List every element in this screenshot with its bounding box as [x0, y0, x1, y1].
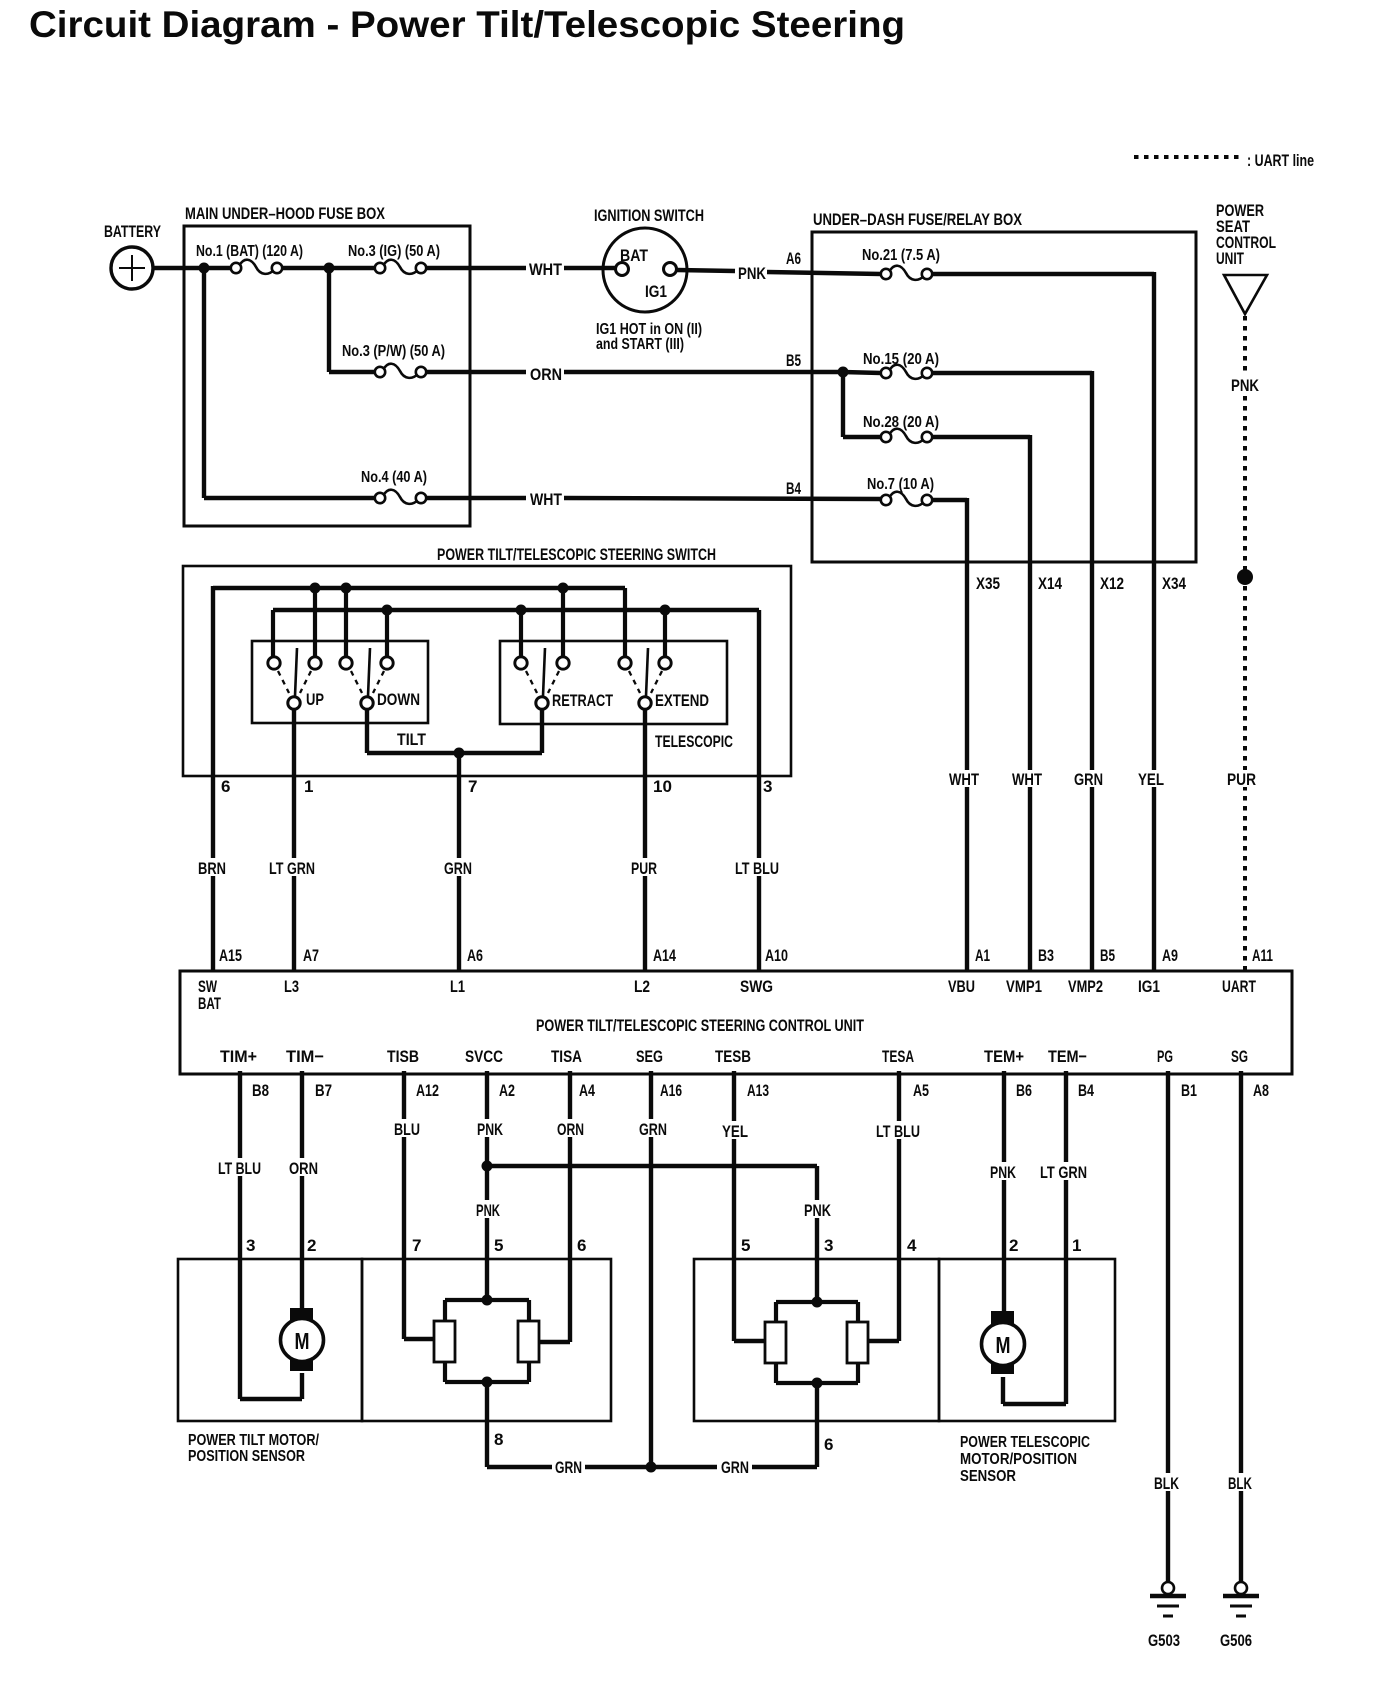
svg-text:No.15 (20 A): No.15 (20 A) [863, 351, 939, 368]
svg-text:EXTEND: EXTEND [655, 691, 709, 710]
wire TIM+ LT BLU to tilt motor [215, 1071, 302, 1399]
node junction on UART line [1237, 569, 1253, 585]
svg-text:VMP1: VMP1 [1006, 977, 1042, 996]
svg-text:A6: A6 [467, 946, 483, 965]
wire TISB BLU to tilt sensor [391, 1071, 435, 1339]
fuse No.7 (10 A) [867, 476, 934, 506]
fuse No.28 (20 A) [863, 414, 939, 443]
svg-text:UNDER–DASH FUSE/RELAY BOX: UNDER–DASH FUSE/RELAY BOX [813, 210, 1023, 229]
svg-text:UNIT: UNIT [1216, 249, 1244, 268]
svg-text:1: 1 [304, 777, 313, 796]
wire ORN to under-dash box [426, 365, 843, 384]
legend: UART line sample [1134, 151, 1314, 170]
potentiometer tilt position sensor [434, 1300, 539, 1382]
svg-text:TEM−: TEM− [1048, 1047, 1087, 1066]
svg-text:X35: X35 [976, 574, 1000, 593]
svg-text:POWER TILT/TELESCOPIC STEERING: POWER TILT/TELESCOPIC STEERING SWITCH [437, 545, 716, 564]
power tilt/telescopic steering switch box [183, 545, 791, 776]
svg-text:2: 2 [307, 1236, 316, 1255]
svg-text:L3: L3 [284, 977, 299, 996]
svg-text:TIM−: TIM− [286, 1047, 324, 1066]
svg-text:10: 10 [653, 777, 672, 796]
fuse No.21 (7.5 A) [862, 247, 940, 280]
fuse No.3 (IG) (50 A) [348, 243, 440, 274]
svg-text:UART: UART [1222, 977, 1256, 996]
svg-text:B6: B6 [1016, 1081, 1032, 1100]
svg-text:G503: G503 [1148, 1631, 1180, 1650]
wire common junction to L1 [457, 753, 461, 971]
svg-text:No.1 (BAT) (120 A): No.1 (BAT) (120 A) [196, 243, 303, 260]
svg-text:TILT: TILT [397, 730, 427, 749]
svg-text:LT BLU: LT BLU [735, 859, 779, 878]
svg-text:B8: B8 [252, 1081, 269, 1100]
svg-text:PNK: PNK [804, 1201, 832, 1220]
svg-text:MOTOR/POSITION: MOTOR/POSITION [960, 1451, 1077, 1468]
label power telescopic motor/position sensor [960, 1434, 1090, 1485]
svg-text:PNK: PNK [738, 264, 767, 283]
svg-text:8: 8 [494, 1430, 503, 1449]
node junction IG branch [324, 263, 335, 274]
node junction bus1 b [341, 583, 352, 594]
svg-text:No.3 (IG) (50 A): No.3 (IG) (50 A) [348, 243, 440, 260]
svg-text:6: 6 [221, 777, 230, 796]
pin IG1 contact [664, 263, 677, 276]
svg-text:RETRACT: RETRACT [552, 691, 613, 710]
wire TIM- ORN to tilt motor [286, 1071, 321, 1310]
wire telescopic sensor pin 6 GRN [817, 1383, 833, 1467]
node junction telescopic sensor bottom [812, 1378, 823, 1389]
main under-hood fuse box [184, 204, 470, 526]
switch DOWN [340, 648, 420, 709]
switch RETRACT [515, 648, 614, 710]
svg-text:GRN: GRN [1074, 770, 1103, 789]
svg-text:GRN: GRN [444, 859, 472, 878]
wire PNK branch to telescopic sensor [487, 1166, 834, 1302]
svg-text:BRN: BRN [198, 859, 226, 878]
wire TEM+ PNK to telescopic motor [987, 1071, 1019, 1313]
tilt switch contact box [252, 641, 428, 723]
battery B1 [104, 222, 161, 289]
svg-text:6: 6 [577, 1236, 586, 1255]
wire TEM- LT GRN to telescopic motor [1003, 1071, 1090, 1404]
svg-text:YEL: YEL [1138, 770, 1164, 789]
svg-text:VBU: VBU [948, 977, 975, 996]
svg-text:and START (III): and START (III) [596, 336, 684, 353]
svg-text:GRN: GRN [721, 1458, 749, 1477]
svg-text:A13: A13 [747, 1081, 769, 1100]
wire color label WHT on X35 [946, 770, 982, 789]
telescopic switch contact box [500, 641, 727, 724]
svg-text:1: 1 [1072, 1236, 1081, 1255]
node junction on battery feed [199, 263, 210, 274]
svg-text:X12: X12 [1100, 574, 1124, 593]
svg-text:B4: B4 [786, 479, 801, 498]
wire TESB YEL to telescopic sensor [719, 1071, 766, 1341]
potentiometer telescopic position sensor [765, 1302, 868, 1383]
svg-text:6: 6 [824, 1435, 833, 1454]
node junction tilt sensor bottom [482, 1377, 493, 1388]
svg-text:PNK: PNK [1231, 376, 1260, 395]
wire GRN bottom bus [487, 1458, 817, 1477]
power telescopic position sensor box [694, 1259, 939, 1421]
svg-text:POWER TILT MOTOR/: POWER TILT MOTOR/ [188, 1432, 320, 1449]
svg-text:TISB: TISB [387, 1047, 419, 1066]
wire RETRACT common to junction [540, 710, 544, 753]
motor M2 power telescopic [982, 1311, 1025, 1404]
power tilt motor box [178, 1259, 362, 1421]
svg-text:G506: G506 [1220, 1631, 1252, 1650]
svg-text:M: M [295, 1328, 310, 1354]
svg-text:TIM+: TIM+ [220, 1047, 257, 1066]
wire branch to fuse No.28 [843, 372, 881, 437]
svg-text:5: 5 [741, 1236, 750, 1255]
svg-text:B5: B5 [786, 351, 801, 370]
svg-text:A9: A9 [1162, 946, 1178, 965]
svg-text:POSITION SENSOR: POSITION SENSOR [188, 1448, 305, 1465]
svg-text:B3: B3 [1038, 946, 1054, 965]
svg-text:B5: B5 [1100, 946, 1115, 965]
svg-text:X34: X34 [1162, 574, 1186, 593]
wire WHT to ignition switch [426, 260, 616, 279]
fuse No.3 (P/W) (50 A) [342, 343, 445, 378]
svg-text:3: 3 [246, 1236, 255, 1255]
svg-text:No.7 (10 A): No.7 (10 A) [867, 476, 934, 493]
power tilt/telescopic steering control unit box [180, 971, 1292, 1074]
node junction tilt/telescopic common [454, 748, 465, 759]
svg-text:WHT: WHT [1012, 770, 1042, 789]
svg-text:BAT: BAT [198, 994, 221, 1013]
svg-text:A7: A7 [303, 946, 319, 965]
svg-text:GRN: GRN [555, 1458, 582, 1477]
node junction bus2 b [516, 605, 527, 616]
svg-text:LT GRN: LT GRN [269, 859, 315, 878]
svg-text:SG: SG [1231, 1047, 1248, 1066]
svg-text:7: 7 [468, 777, 477, 796]
svg-text:TESA: TESA [882, 1047, 914, 1066]
wire TISA ORN to tilt sensor [540, 1071, 587, 1342]
svg-text:X14: X14 [1038, 574, 1062, 593]
wire fuse No.15 to X12 vertical [932, 371, 1092, 971]
svg-text:LT GRN: LT GRN [1040, 1163, 1087, 1182]
power tilt position sensor box [362, 1259, 611, 1421]
wire branch to fuse No.4 [204, 268, 376, 498]
svg-text:No.21 (7.5 A): No.21 (7.5 A) [862, 247, 940, 264]
node junction telescopic sensor top [812, 1297, 823, 1308]
wire color label LT BLU [732, 858, 782, 878]
pin SW BAT label [198, 977, 221, 1013]
svg-text:LT BLU: LT BLU [876, 1122, 920, 1141]
svg-text:PUR: PUR [1227, 770, 1256, 789]
svg-text:PUR: PUR [631, 859, 657, 878]
svg-text:A5: A5 [913, 1081, 929, 1100]
svg-text:5: 5 [494, 1236, 503, 1255]
switch EXTEND [619, 648, 709, 710]
wire EXTEND common to L2 [643, 710, 647, 971]
wire color label GRN on X12 [1071, 770, 1105, 789]
svg-text:LT BLU: LT BLU [218, 1159, 261, 1178]
wire color label BRN [195, 858, 231, 878]
svg-text:M: M [996, 1332, 1011, 1358]
svg-text:PNK: PNK [477, 1120, 504, 1139]
fuse No.4 (40 A) [361, 469, 427, 504]
label power tilt motor/position sensor [188, 1432, 320, 1465]
svg-text:SEG: SEG [636, 1047, 663, 1066]
svg-text:IG1: IG1 [1138, 977, 1160, 996]
svg-text:Circuit Diagram - Power Tilt/T: Circuit Diagram - Power Tilt/Telescopic … [29, 4, 905, 45]
power seat control unit [1216, 201, 1276, 314]
svg-text:B4: B4 [1078, 1081, 1094, 1100]
svg-text:: UART line: : UART line [1247, 151, 1314, 170]
wire battery to fuse No.1 [153, 266, 232, 270]
wire UP common to L3 [292, 710, 296, 971]
svg-text:TESB: TESB [715, 1047, 751, 1066]
svg-text:L2: L2 [634, 977, 650, 996]
svg-text:A16: A16 [660, 1081, 682, 1100]
node junction bus1 a [310, 583, 321, 594]
svg-text:PNK: PNK [990, 1163, 1017, 1182]
svg-text:7: 7 [412, 1236, 421, 1255]
svg-text:A1: A1 [975, 946, 990, 965]
wire fuse No.28 to X14 vertical [932, 435, 1030, 971]
svg-text:MAIN UNDER–HOOD FUSE BOX: MAIN UNDER–HOOD FUSE BOX [185, 204, 386, 223]
svg-text:ORN: ORN [530, 365, 562, 384]
svg-text:UP: UP [306, 690, 324, 709]
ignition switch [594, 206, 704, 353]
ground G503 [1148, 1582, 1186, 1650]
wire UART dotted line PUR [1224, 316, 1263, 971]
node junction SEG to GRN bus [646, 1462, 657, 1473]
svg-text:4: 4 [907, 1236, 917, 1255]
node junction bus2 a [382, 605, 393, 616]
svg-text:DOWN: DOWN [377, 690, 420, 709]
svg-text:GRN: GRN [639, 1120, 667, 1139]
svg-text:SENSOR: SENSOR [960, 1468, 1016, 1485]
wire tilt sensor pin 8 GRN [487, 1382, 503, 1467]
svg-text:B1: B1 [1181, 1081, 1197, 1100]
wire SEG GRN down [636, 1071, 670, 1467]
svg-text:A2: A2 [499, 1081, 515, 1100]
svg-text:A10: A10 [765, 946, 788, 965]
svg-text:3: 3 [763, 777, 772, 796]
fuse No.15 (20 A) [843, 351, 939, 379]
svg-text:No.28 (20 A): No.28 (20 A) [863, 414, 939, 431]
svg-text:WHT: WHT [949, 770, 979, 789]
svg-text:SVCC: SVCC [465, 1047, 503, 1066]
svg-text:No.4 (40 A): No.4 (40 A) [361, 469, 427, 486]
svg-text:3: 3 [824, 1236, 833, 1255]
svg-text:A12: A12 [416, 1081, 439, 1100]
svg-text:BLU: BLU [394, 1120, 420, 1139]
svg-text:TEM+: TEM+ [984, 1047, 1024, 1066]
fuse No.1 (BAT) (120 A) [196, 243, 303, 274]
wire color label WHT on X14 [1009, 770, 1045, 789]
power telescopic motor box [939, 1259, 1115, 1421]
wire TESA LT BLU to telescopic sensor [868, 1071, 923, 1341]
svg-text:PNK: PNK [476, 1201, 500, 1220]
svg-text:SWG: SWG [740, 977, 773, 996]
svg-text:BLK: BLK [1228, 1474, 1252, 1493]
svg-text:BLK: BLK [1154, 1474, 1180, 1493]
svg-text:POWER TELESCOPIC: POWER TELESCOPIC [960, 1434, 1090, 1451]
node junction bus1 c [558, 583, 569, 594]
svg-text:A8: A8 [1253, 1081, 1269, 1100]
svg-text:ORN: ORN [289, 1159, 318, 1178]
svg-text:PG: PG [1157, 1047, 1173, 1066]
svg-text:YEL: YEL [722, 1122, 748, 1141]
svg-text:No.3 (P/W) (50 A): No.3 (P/W) (50 A) [342, 343, 445, 360]
wire color label PUR [628, 858, 661, 878]
motor M1 power tilt [281, 1308, 324, 1399]
svg-text:L1: L1 [450, 977, 465, 996]
switch UP [268, 648, 324, 709]
wire color label GRN [441, 858, 477, 878]
wire WHT to fuse No.7 [426, 490, 881, 509]
svg-text:IG1: IG1 [645, 282, 667, 301]
svg-text:WHT: WHT [529, 260, 563, 279]
wire fuse No.1 to fuse No.3 IG [282, 266, 375, 270]
wire PG BLK to ground [1151, 1071, 1183, 1582]
svg-text:A15: A15 [219, 946, 242, 965]
wire bus 1 (pin 6 net) [213, 586, 625, 971]
wire fuse No.21 to X34 vertical [932, 272, 1154, 971]
wire PNK ignition to under-dash box pin A6 [677, 249, 881, 283]
wire fuse No.7 to X35 vertical [932, 498, 967, 971]
node junction bus2 c [660, 605, 671, 616]
node junction SVCC branch [482, 1161, 493, 1172]
wire SG BLK to ground [1225, 1071, 1256, 1582]
wire color label LT GRN [266, 858, 318, 878]
ground G506 [1220, 1582, 1259, 1650]
svg-text:A14: A14 [653, 946, 676, 965]
node junction No.15 feed [838, 367, 849, 378]
svg-text:A4: A4 [579, 1081, 595, 1100]
under-dash fuse/relay box [812, 210, 1196, 562]
svg-text:IGNITION SWITCH: IGNITION SWITCH [594, 206, 704, 225]
svg-text:BATTERY: BATTERY [104, 222, 161, 241]
wire DOWN common to junction [367, 710, 542, 753]
wire SVCC PNK to tilt sensor [473, 1071, 506, 1300]
svg-text:2: 2 [1009, 1236, 1018, 1255]
pin BAT contact [616, 263, 629, 276]
svg-text:ORN: ORN [557, 1120, 584, 1139]
svg-text:TISA: TISA [551, 1047, 582, 1066]
wire branch to fuse No.3 P/W [329, 268, 376, 372]
node junction tilt sensor top [482, 1295, 493, 1306]
svg-text:POWER TILT/TELESCOPIC STEERING: POWER TILT/TELESCOPIC STEERING CONTROL U… [536, 1016, 864, 1035]
svg-text:VMP2: VMP2 [1068, 977, 1103, 996]
svg-text:WHT: WHT [530, 490, 562, 509]
wire bus 2 (pin 3 net) [273, 610, 759, 971]
svg-text:A6: A6 [786, 249, 801, 268]
svg-text:B7: B7 [315, 1081, 332, 1100]
svg-text:A11: A11 [1252, 946, 1273, 965]
svg-text:TELESCOPIC: TELESCOPIC [655, 732, 733, 751]
wire color label YEL on X34 [1135, 770, 1166, 789]
